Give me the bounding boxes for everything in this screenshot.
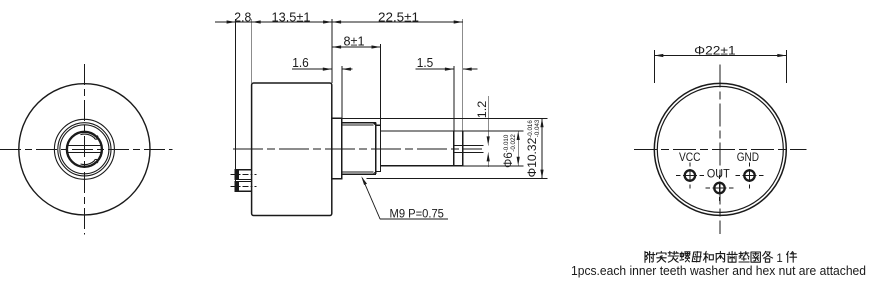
svg-text:2.8: 2.8 bbox=[234, 10, 251, 24]
svg-text:8±1: 8±1 bbox=[344, 34, 365, 48]
svg-text:22.5±1: 22.5±1 bbox=[378, 10, 419, 24]
svg-text:OUT: OUT bbox=[707, 168, 730, 180]
svg-text:M9 P=0.75: M9 P=0.75 bbox=[390, 209, 444, 221]
svg-text:1.5: 1.5 bbox=[417, 56, 434, 70]
svg-text:GND: GND bbox=[737, 152, 759, 164]
svg-text:1: 1 bbox=[776, 253, 782, 265]
svg-text:13.5±1: 13.5±1 bbox=[272, 10, 311, 24]
svg-text:Φ6-0.010-0.022: Φ6-0.010-0.022 bbox=[503, 134, 517, 168]
svg-text:Φ22±1: Φ22±1 bbox=[694, 44, 736, 58]
svg-text:1.6: 1.6 bbox=[292, 56, 309, 70]
svg-text:1pcs.each inner teeth washer a: 1pcs.each inner teeth washer and hex nut… bbox=[571, 264, 866, 278]
svg-text:Φ10.32-0.016-0.043: Φ10.32-0.016-0.043 bbox=[525, 119, 541, 177]
svg-text:VCC: VCC bbox=[679, 152, 701, 164]
svg-text:1.2: 1.2 bbox=[475, 100, 489, 118]
